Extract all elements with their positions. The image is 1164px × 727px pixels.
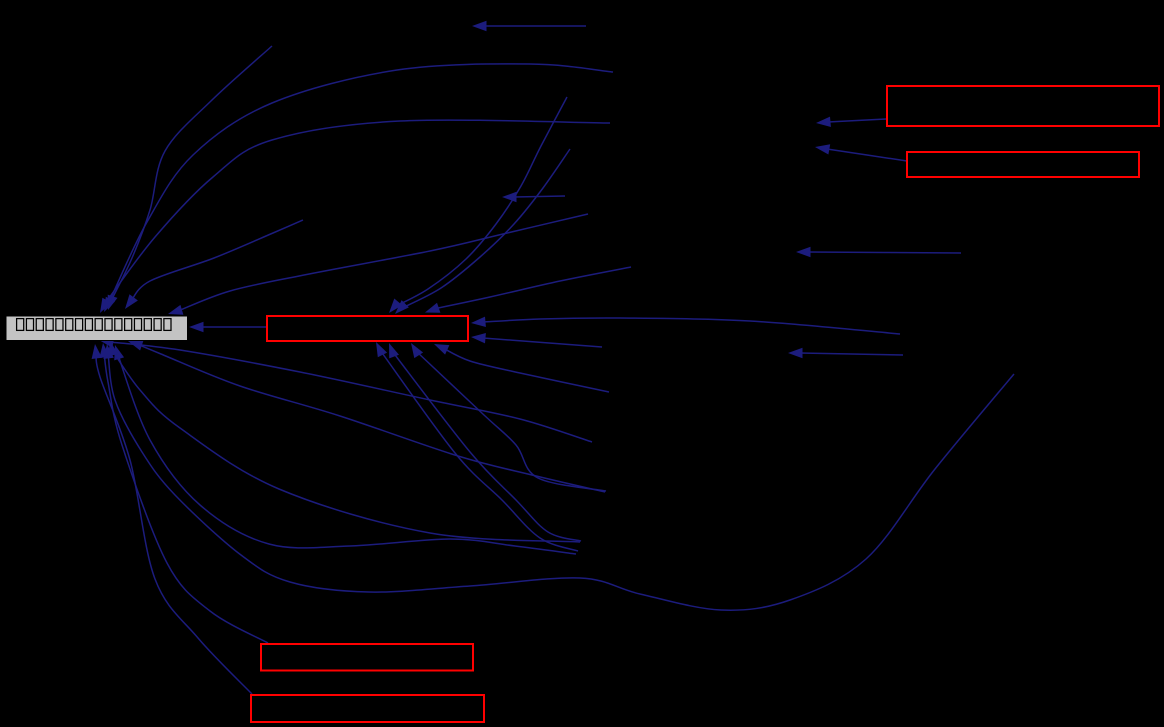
edge T: [168, 214, 588, 315]
edge H5: [502, 192, 565, 202]
edge C: [100, 120, 610, 313]
node N1 center red box: [267, 316, 468, 341]
edge H3: [796, 247, 961, 257]
edge N1-N0: [189, 322, 266, 332]
edge H4: [472, 21, 586, 31]
edge S1: [389, 97, 567, 313]
edge D: [125, 220, 303, 309]
edge F3: [103, 344, 1014, 610]
edge G1: [376, 342, 578, 551]
edge F6: [128, 341, 605, 492]
edge F8: [434, 344, 609, 392]
edge F2: [92, 344, 252, 694]
edge F4: [114, 345, 576, 554]
edge H1: [471, 317, 900, 334]
node N3 second top-right red box: [907, 152, 1139, 177]
node N5 second bottom red box: [251, 695, 484, 722]
node N2 top-right red box: [887, 86, 1159, 126]
edge B: [104, 64, 613, 312]
edge A: [108, 46, 272, 310]
edge S2: [395, 149, 570, 314]
edge F5: [108, 341, 580, 542]
node N0 gray current-node box with tofu glyph text: [6, 316, 188, 341]
edge S4: [425, 267, 631, 313]
edge F7: [99, 338, 592, 443]
edge H0: [471, 333, 602, 347]
edge G3: [411, 343, 606, 491]
edge H2: [788, 348, 903, 358]
node N4 bottom red box: [261, 644, 473, 671]
edge H7: [815, 144, 907, 161]
edge H6: [816, 117, 886, 127]
edge G2: [389, 343, 581, 541]
edge F1: [99, 343, 268, 643]
